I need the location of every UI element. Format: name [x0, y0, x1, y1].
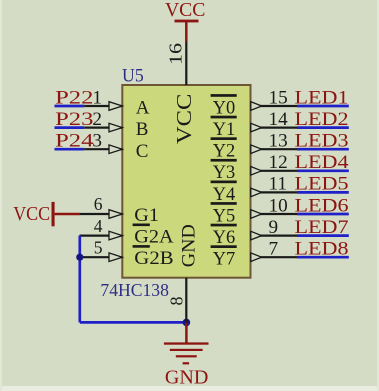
- pin 11 wire: [251, 191, 298, 193]
- IC U5 74HC138 body: [122, 85, 250, 278]
- pin 9 arrow: [251, 231, 262, 240]
- svg-text:Y4: Y4: [213, 184, 236, 205]
- pin 16 wire: [185, 42, 187, 86]
- pin 15 wire: [251, 105, 298, 107]
- pin 11 arrow: [251, 188, 262, 197]
- junction dot at ground node: [183, 319, 191, 327]
- power VCC (top) bar: [175, 20, 199, 23]
- junction dot at pin 5: [76, 254, 83, 261]
- wire net LED5 (blue): [297, 191, 349, 194]
- pin 10 wire: [251, 213, 298, 215]
- svg-text:74HC138: 74HC138: [100, 280, 169, 300]
- svg-text:Y6: Y6: [213, 227, 236, 248]
- svg-text:3: 3: [92, 131, 102, 152]
- ground bar 1: [164, 342, 209, 344]
- overbar Y1: [211, 116, 237, 119]
- ground bar 4: [183, 362, 190, 364]
- overbar Y2: [211, 137, 237, 140]
- svg-text:LED4: LED4: [295, 152, 349, 173]
- pin 2 wire: [84, 126, 122, 128]
- svg-text:4: 4: [94, 216, 103, 236]
- pin 14 arrow: [251, 123, 262, 132]
- svg-text:B: B: [136, 119, 149, 140]
- svg-text:Y3: Y3: [213, 162, 236, 183]
- svg-text:Y7: Y7: [213, 249, 236, 270]
- svg-text:GND: GND: [165, 367, 209, 389]
- svg-text:10: 10: [269, 195, 288, 216]
- overbar Y7: [211, 245, 237, 248]
- pin 15 arrow: [251, 102, 262, 111]
- overbar G2B: [133, 245, 150, 248]
- pin 7 wire: [251, 256, 298, 258]
- overbar Y5: [211, 202, 237, 205]
- svg-text:P23: P23: [55, 109, 93, 130]
- svg-text:LED7: LED7: [295, 217, 349, 238]
- pin 13 arrow: [251, 145, 262, 154]
- power VCC (left) bar: [52, 202, 55, 226]
- svg-text:LED8: LED8: [295, 239, 349, 260]
- ground bar 3: [176, 355, 197, 357]
- svg-text:7: 7: [269, 239, 279, 260]
- pin 1 arrow: [109, 102, 122, 111]
- pin 14 wire: [251, 126, 298, 128]
- wire to ground node horizontal (blue): [80, 321, 187, 324]
- pin 4 wire: [80, 235, 123, 237]
- wire net LED3 (blue): [297, 148, 349, 151]
- svg-text:14: 14: [269, 109, 289, 130]
- pin 3 arrow: [109, 145, 122, 154]
- wire net LED2 (blue): [297, 126, 349, 129]
- svg-text:15: 15: [269, 87, 288, 108]
- pin 2 arrow: [109, 123, 122, 132]
- svg-text:G2B: G2B: [134, 248, 173, 269]
- svg-text:Y5: Y5: [213, 205, 236, 226]
- ground bar 2: [170, 349, 203, 351]
- power VCC (left) stem: [55, 213, 80, 216]
- power VCC (top) stem: [185, 21, 188, 42]
- svg-text:P22: P22: [55, 87, 93, 108]
- overbar Y3: [211, 159, 237, 162]
- overbar G2A: [133, 224, 150, 227]
- wire net LED7 (blue): [297, 234, 349, 237]
- svg-text:13: 13: [269, 131, 288, 152]
- svg-text:VCC: VCC: [13, 203, 50, 225]
- svg-text:12: 12: [269, 152, 288, 173]
- wire net LED4 (blue): [297, 169, 349, 172]
- svg-text:Y1: Y1: [213, 119, 236, 140]
- svg-text:A: A: [136, 98, 150, 119]
- overbar Y6: [211, 224, 237, 227]
- pin 3 wire: [84, 148, 122, 150]
- svg-text:G1: G1: [134, 205, 159, 226]
- pin 9 wire: [251, 235, 298, 237]
- wire net LED6 (blue): [297, 213, 349, 216]
- pin 12 arrow: [251, 167, 262, 176]
- svg-text:C: C: [136, 141, 149, 162]
- wire G2A-G2B vertical (blue): [78, 236, 81, 323]
- pin 10 arrow: [251, 210, 262, 219]
- svg-text:LED6: LED6: [295, 195, 349, 216]
- overbar Y4: [211, 181, 237, 184]
- pin 6 arrow: [109, 210, 122, 219]
- pin 13 wire: [251, 148, 298, 150]
- svg-text:G2A: G2A: [134, 227, 174, 248]
- pin 5 arrow: [109, 253, 122, 262]
- wire net LED1 (blue): [297, 105, 349, 108]
- wire net P24 (blue): [55, 148, 85, 151]
- pin 7 arrow: [251, 253, 262, 262]
- pin 5 wire: [80, 256, 123, 258]
- pin 4 arrow: [109, 231, 122, 240]
- svg-text:VCC: VCC: [172, 94, 196, 144]
- pin 6 wire: [80, 213, 122, 215]
- svg-text:VCC: VCC: [165, 0, 206, 21]
- svg-text:6: 6: [94, 194, 103, 214]
- svg-text:5: 5: [94, 237, 103, 257]
- pin 1 wire: [84, 105, 122, 107]
- svg-text:LED3: LED3: [295, 131, 349, 152]
- svg-text:Y2: Y2: [213, 141, 236, 162]
- svg-text:Y0: Y0: [213, 97, 236, 118]
- svg-text:LED2: LED2: [295, 109, 349, 130]
- pin 12 wire: [251, 170, 298, 172]
- svg-text:1: 1: [92, 87, 102, 108]
- svg-text:2: 2: [92, 109, 102, 130]
- pin 8 wire: [185, 278, 187, 323]
- svg-text:LED5: LED5: [295, 174, 349, 195]
- svg-text:U5: U5: [122, 65, 144, 86]
- svg-text:11: 11: [269, 174, 287, 195]
- svg-text:8: 8: [167, 297, 187, 306]
- wire net P22 (blue): [55, 105, 85, 108]
- ground stem: [185, 322, 188, 343]
- svg-text:GND: GND: [179, 224, 200, 267]
- overbar Y0: [211, 94, 237, 97]
- svg-text:16: 16: [165, 43, 185, 65]
- svg-text:P24: P24: [55, 131, 94, 152]
- svg-text:9: 9: [269, 217, 279, 238]
- wire net P23 (blue): [55, 126, 85, 129]
- svg-text:LED1: LED1: [295, 87, 349, 108]
- wire net LED8 (blue): [297, 256, 349, 259]
